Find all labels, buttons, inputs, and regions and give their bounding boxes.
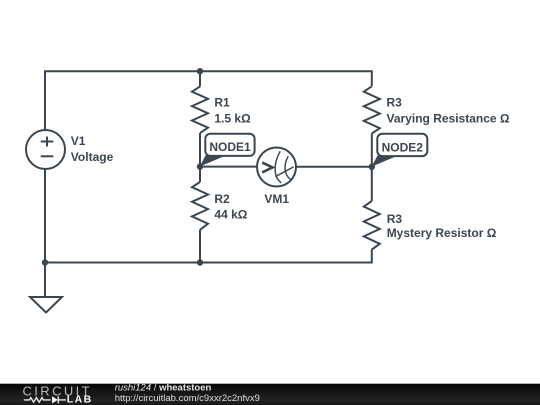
- svg-text:R2: R2: [214, 192, 230, 206]
- svg-text:1.5 kΩ: 1.5 kΩ: [214, 111, 251, 125]
- resistor R1 body: [192, 87, 208, 134]
- svg-text:LAB: LAB: [67, 394, 93, 405]
- node NODE2 junction: [369, 164, 375, 170]
- node junction ground rail / V1: [42, 259, 48, 265]
- svg-text:R1: R1: [214, 96, 230, 110]
- resistor R2 body: [192, 182, 208, 230]
- svg-text:R3: R3: [387, 212, 403, 226]
- voltmeter VM1: [257, 148, 296, 187]
- node NODE2 tag tail: [371, 156, 396, 167]
- node NODE1 tag tail: [200, 155, 224, 166]
- svg-text:V1: V1: [71, 134, 86, 148]
- resistor R3 bottom body: [364, 201, 380, 250]
- wire top rail: [45, 71, 372, 130]
- wire R1 to node1: [199, 133, 201, 167]
- wire node1 to voltmeter: [200, 166, 257, 168]
- svg-text:R3: R3: [387, 96, 403, 110]
- svg-text:http://circuitlab.com/c9xxr2c2: http://circuitlab.com/c9xxr2c2nfvx9: [115, 393, 260, 404]
- wire bottom rail: [45, 250, 372, 263]
- wire R2 bottom lead: [199, 230, 201, 263]
- junction node dots: [42, 68, 375, 266]
- ground stem: [44, 263, 46, 298]
- node NODE1 junction: [197, 163, 203, 169]
- ground: [30, 297, 62, 313]
- footer bar: [0, 384, 540, 405]
- svg-text:rushi124 / wheatstoen: rushi124 / wheatstoen: [115, 382, 212, 393]
- svg-text:NODE1: NODE1: [209, 140, 251, 154]
- wire V1 bottom to ground rail: [44, 169, 46, 263]
- wire R1 top lead: [199, 71, 201, 86]
- wire node1 to R2: [199, 167, 201, 182]
- resistor R3 top body: [364, 86, 380, 133]
- voltage source V1: [26, 130, 65, 169]
- svg-text:Varying Resistance Ω: Varying Resistance Ω: [387, 111, 510, 125]
- svg-text:Mystery Resistor Ω: Mystery Resistor Ω: [387, 226, 497, 240]
- footer CircuitLab logo: [23, 384, 93, 405]
- wire voltmeter to node2: [296, 166, 372, 168]
- node junction top rail / R1: [197, 68, 203, 74]
- wire node2 to R3 bottom: [371, 167, 373, 201]
- node junction ground rail / R2: [197, 259, 203, 265]
- node NODE2 tag: [377, 134, 427, 156]
- svg-text:Voltage: Voltage: [71, 150, 114, 164]
- svg-text:NODE2: NODE2: [382, 140, 424, 154]
- wire R3top to node2: [371, 134, 373, 167]
- node NODE1 tag: [205, 134, 254, 156]
- svg-text:44 kΩ: 44 kΩ: [214, 208, 247, 222]
- svg-text:VM1: VM1: [264, 192, 289, 206]
